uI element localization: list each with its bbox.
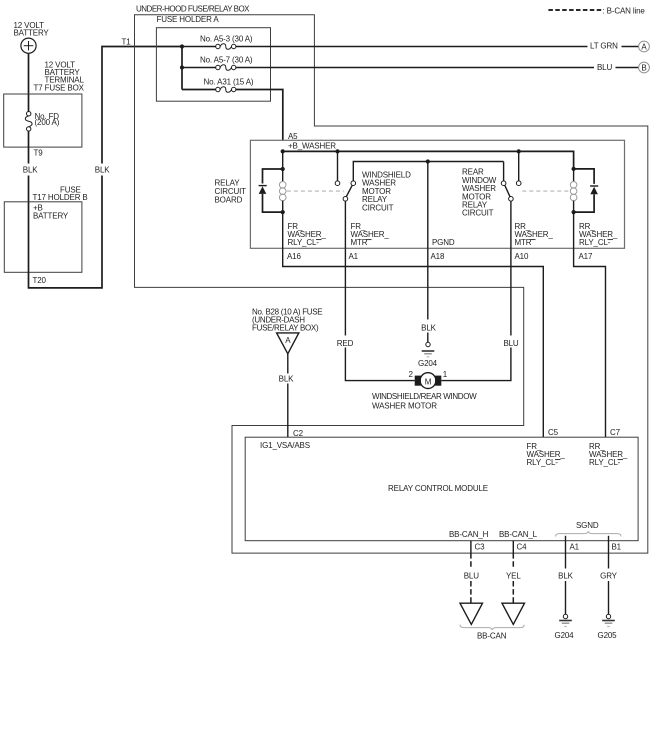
svg-text:FUSE HOLDER A: FUSE HOLDER A bbox=[157, 15, 220, 24]
svg-text:RLY_CL-: RLY_CL- bbox=[579, 238, 611, 247]
svg-text:WINDSHIELD/REAR WINDOW: WINDSHIELD/REAR WINDOW bbox=[372, 392, 477, 401]
svg-text:BLK: BLK bbox=[421, 324, 436, 333]
svg-text:BB-CAN: BB-CAN bbox=[477, 632, 507, 641]
svg-text:BLU: BLU bbox=[464, 572, 479, 581]
svg-text:A: A bbox=[285, 336, 291, 345]
svg-text:RLY_CL-: RLY_CL- bbox=[527, 458, 559, 467]
svg-text:LT GRN: LT GRN bbox=[590, 42, 618, 51]
svg-text:WASHER MOTOR: WASHER MOTOR bbox=[372, 402, 437, 411]
svg-text:RED: RED bbox=[337, 339, 354, 348]
svg-text:CIRCUIT: CIRCUIT bbox=[462, 209, 494, 218]
svg-text:BOARD: BOARD bbox=[215, 196, 243, 205]
svg-text:C3: C3 bbox=[475, 543, 486, 552]
svg-text:RLY_CL-: RLY_CL- bbox=[589, 458, 621, 467]
svg-text:: B-CAN line: : B-CAN line bbox=[603, 7, 646, 16]
svg-text:T20: T20 bbox=[33, 276, 47, 285]
svg-text:No. A5-7 (30 A): No. A5-7 (30 A) bbox=[200, 55, 253, 64]
svg-text:+B_WASHER: +B_WASHER bbox=[288, 142, 336, 151]
svg-text:A10: A10 bbox=[515, 252, 529, 261]
svg-text:A1: A1 bbox=[349, 252, 359, 261]
svg-text:G205: G205 bbox=[598, 631, 618, 640]
svg-text:PGND: PGND bbox=[432, 238, 455, 247]
svg-text:2: 2 bbox=[408, 370, 413, 379]
svg-text:BLU: BLU bbox=[503, 339, 518, 348]
svg-text:YEL: YEL bbox=[506, 572, 521, 581]
svg-text:C5: C5 bbox=[548, 428, 559, 437]
svg-text:GRY: GRY bbox=[600, 572, 618, 581]
svg-text:(200 A): (200 A) bbox=[35, 118, 60, 127]
svg-text:T17 HOLDER B: T17 HOLDER B bbox=[33, 193, 88, 202]
svg-text:BB-CAN_L: BB-CAN_L bbox=[499, 530, 538, 539]
svg-text:BATTERY: BATTERY bbox=[14, 29, 50, 38]
svg-text:A5: A5 bbox=[288, 132, 298, 141]
svg-text:B1: B1 bbox=[612, 543, 622, 552]
svg-text:SGND: SGND bbox=[576, 521, 599, 530]
svg-text:A: A bbox=[641, 43, 647, 52]
svg-text:BLU: BLU bbox=[597, 63, 612, 72]
svg-text:A1: A1 bbox=[570, 543, 580, 552]
svg-text:FUSE/RELAY BOX): FUSE/RELAY BOX) bbox=[252, 324, 319, 333]
svg-text:C7: C7 bbox=[610, 428, 621, 437]
svg-text:RELAY CONTROL MODULE: RELAY CONTROL MODULE bbox=[388, 484, 488, 493]
svg-text:T1: T1 bbox=[122, 38, 132, 47]
svg-text:G204: G204 bbox=[555, 631, 575, 640]
svg-text:C2: C2 bbox=[293, 429, 304, 438]
svg-text:C4: C4 bbox=[517, 543, 528, 552]
svg-text:T7 FUSE BOX: T7 FUSE BOX bbox=[34, 84, 85, 93]
svg-text:BATTERY: BATTERY bbox=[33, 212, 69, 221]
svg-text:T9: T9 bbox=[34, 149, 44, 158]
svg-text:BLK: BLK bbox=[23, 166, 38, 175]
svg-text:M: M bbox=[425, 378, 432, 387]
svg-text:B: B bbox=[641, 64, 646, 73]
svg-text:A17: A17 bbox=[579, 252, 593, 261]
svg-text:A18: A18 bbox=[431, 252, 445, 261]
svg-text:CIRCUIT: CIRCUIT bbox=[362, 203, 394, 212]
svg-text:A16: A16 bbox=[287, 252, 301, 261]
svg-text:IG1_VSA/ABS: IG1_VSA/ABS bbox=[260, 441, 310, 450]
svg-text:G204: G204 bbox=[418, 359, 438, 368]
svg-text:BB-CAN_H: BB-CAN_H bbox=[449, 530, 489, 539]
svg-text:BLK: BLK bbox=[558, 572, 573, 581]
svg-text:No. A5-3 (30 A): No. A5-3 (30 A) bbox=[200, 34, 253, 43]
svg-text:UNDER-HOOD FUSE/RELAY BOX: UNDER-HOOD FUSE/RELAY BOX bbox=[136, 5, 250, 14]
svg-text:MTR: MTR bbox=[351, 238, 368, 247]
svg-text:BLK: BLK bbox=[279, 375, 294, 384]
svg-text:No. A31 (15 A): No. A31 (15 A) bbox=[204, 78, 254, 87]
svg-text:RLY_CL-: RLY_CL- bbox=[288, 238, 320, 247]
svg-text:MTR: MTR bbox=[515, 238, 532, 247]
svg-text:BLK: BLK bbox=[95, 166, 110, 175]
svg-text:1: 1 bbox=[443, 370, 448, 379]
